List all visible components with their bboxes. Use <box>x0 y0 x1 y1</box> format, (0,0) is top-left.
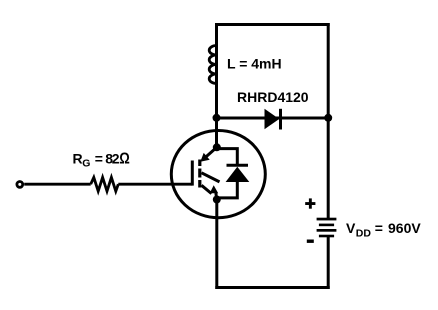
body diode cathode bar <box>227 164 249 167</box>
node source dot <box>213 196 221 204</box>
source diagonal <box>202 185 212 193</box>
svg-text:L = 4mH: L = 4mH <box>227 55 282 71</box>
node drain dot <box>213 143 221 151</box>
channel bar segment bottom <box>198 180 201 188</box>
gate bar <box>191 161 194 186</box>
resistor RG zigzag <box>91 177 119 191</box>
body diode triangle (pointing up) <box>226 167 250 182</box>
wire internal diode top elbow <box>217 149 238 166</box>
diode D1 RHRD4120 <box>265 109 281 130</box>
body diagonal <box>202 173 220 182</box>
wire bottom rail <box>215 286 329 289</box>
svg-text:RHRD4120: RHRD4120 <box>237 89 309 105</box>
wire right rail lower <box>327 237 330 289</box>
drain diagonal with arrow into channel <box>200 147 217 162</box>
minus sign <box>307 240 314 243</box>
wire diode branch <box>217 117 329 120</box>
wire source to bottom rail <box>215 200 218 290</box>
inductor L1 <box>209 46 216 84</box>
wire top rail <box>215 23 330 26</box>
svg-text:Ω: Ω <box>119 151 130 168</box>
plus sign <box>305 198 315 208</box>
channel bar segment middle <box>198 169 201 178</box>
gate input terminal <box>17 182 23 188</box>
battery VDD <box>317 218 337 238</box>
node junction dot left (diode to left rail) <box>213 114 221 122</box>
wire gate lead right <box>118 183 192 186</box>
svg-text:RG=82: RG=82 <box>73 151 120 170</box>
wire internal diode bottom elbow <box>217 182 238 198</box>
transistor Q1 envelope <box>171 131 265 218</box>
wire right rail upper <box>327 23 330 218</box>
source arrow pointing up <box>210 185 219 199</box>
wire left rail upper segment <box>215 23 218 147</box>
node junction dot right (diode to right rail) <box>324 114 332 122</box>
wire gate lead left <box>24 183 91 186</box>
channel bar segment top <box>198 160 201 167</box>
